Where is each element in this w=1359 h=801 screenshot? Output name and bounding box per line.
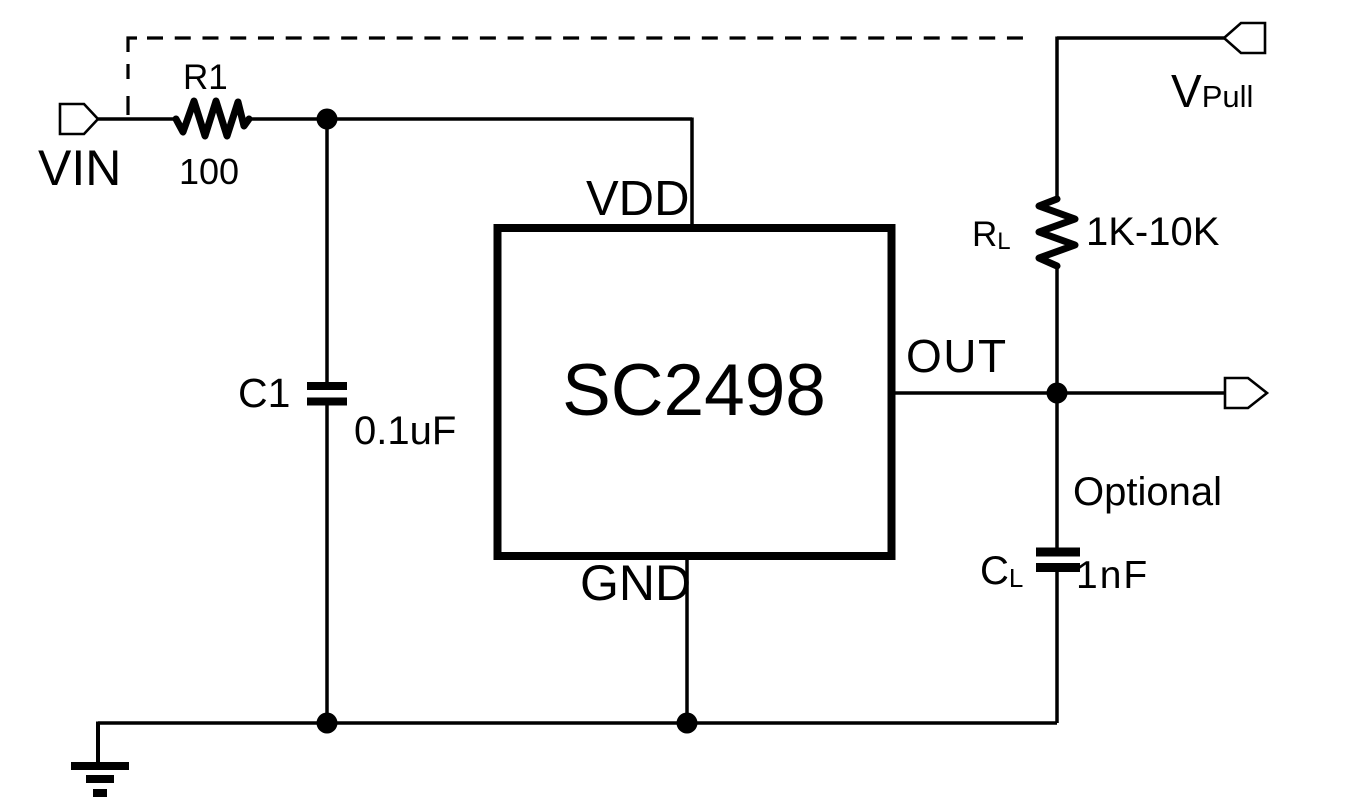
- wire to VPull terminal: [1057, 36, 1226, 40]
- svg-text:SC2498: SC2498: [562, 350, 826, 431]
- svg-text:Optional: Optional: [1073, 470, 1222, 514]
- wire C1 bottom: [325, 404, 329, 723]
- capacitor C1: [307, 382, 347, 390]
- wire dashed net vertical drop to VIN wire: [126, 64, 129, 115]
- resistor R1: [176, 101, 249, 136]
- svg-text:0.1uF: 0.1uF: [354, 409, 456, 453]
- wire GND pin drop: [685, 556, 689, 723]
- op-amp U1 SC2498 IC box: [498, 228, 892, 556]
- svg-text:VDD: VDD: [586, 172, 689, 226]
- svg-text:1nF: 1nF: [1076, 554, 1149, 597]
- wire bottom rail: [98, 721, 1057, 725]
- wire OUT node to CL: [1055, 393, 1059, 549]
- svg-text:1K-10K: 1K-10K: [1086, 210, 1220, 254]
- junction node OUT: [1047, 383, 1068, 404]
- svg-text:GND: GND: [580, 555, 691, 611]
- capacitor CL: [1036, 548, 1080, 557]
- wire dashed net corner piece: [128, 38, 137, 52]
- wire right rail top (VPull down to RL): [1055, 37, 1059, 201]
- ground: [96, 722, 100, 763]
- junction node after R1: [317, 109, 338, 130]
- svg-text:OUT: OUT: [906, 330, 1008, 382]
- svg-text:VIN: VIN: [38, 140, 121, 196]
- terminal OUT connector: [1225, 378, 1267, 408]
- wire OUT to terminal: [891, 391, 1226, 395]
- resistor RL: [1039, 199, 1075, 266]
- wire C1 top: [325, 119, 329, 384]
- wire CL to bottom rail: [1055, 570, 1059, 723]
- terminal VIN connector: [60, 104, 98, 134]
- wire VIN to R1: [98, 117, 177, 121]
- svg-text:100: 100: [179, 151, 239, 192]
- wire VDD pin drop: [690, 118, 694, 231]
- svg-text:R1: R1: [183, 58, 228, 97]
- wire dashed net VIN to VPull (horizontal): [147, 36, 1026, 39]
- wire RL to OUT node: [1055, 266, 1059, 393]
- terminal VPull connector: [1224, 23, 1265, 53]
- wire R1 to VDD corner: [248, 117, 692, 121]
- svg-text:C1: C1: [238, 370, 290, 416]
- junction node C1 to rail: [317, 713, 338, 734]
- junction node GND to rail: [677, 713, 698, 734]
